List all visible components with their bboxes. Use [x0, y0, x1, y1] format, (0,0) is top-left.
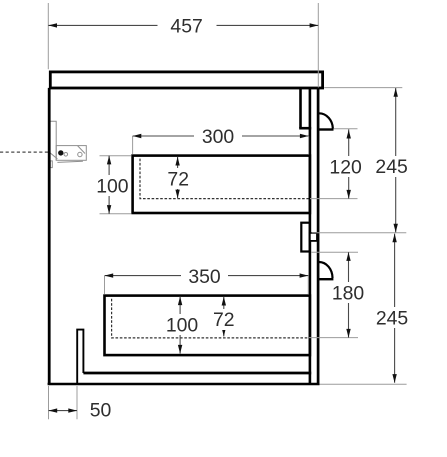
svg-text:100: 100: [96, 176, 129, 198]
72 bottom: [222, 297, 226, 306]
dim line 72 top: [177, 157, 179, 199]
right front panel inner line: [309, 88, 312, 384]
arrowheads: [48, 23, 398, 413]
countertop: [50, 72, 322, 88]
svg-text:350: 350: [188, 266, 221, 288]
svg-text:50: 50: [90, 400, 112, 422]
180 exts: [312, 251, 359, 253]
svg-text:245: 245: [375, 156, 407, 178]
457 exts: [47, 3, 49, 69]
50: [49, 408, 58, 412]
svg-text:245: 245: [376, 308, 408, 330]
bottom drawer dashed inner: [112, 299, 309, 338]
wall bracket detail: [50, 121, 87, 167]
floor line: [48, 383, 320, 386]
svg-text:72: 72: [167, 168, 189, 190]
dim line 72 bottom: [223, 297, 225, 337]
dim line 300: [133, 135, 309, 137]
middle glide bracket: [301, 223, 310, 252]
120 exts: [334, 128, 358, 130]
left side panel: [48, 88, 51, 384]
457: [48, 23, 57, 27]
100 top exts: [100, 155, 132, 157]
350 exts: [104, 276, 106, 294]
100 bottom: [178, 296, 182, 305]
dim line 457: [48, 24, 318, 26]
svg-text:100: 100: [166, 314, 199, 336]
dim line 245 top: [395, 88, 397, 232]
dim line 350: [105, 275, 309, 277]
dim line 50: [49, 410, 78, 412]
bracket pin dot: [58, 150, 63, 155]
wall dashed line: [0, 151, 49, 153]
floor extension right: [320, 383, 407, 385]
svg-text:300: 300: [202, 126, 235, 148]
top drawer dashed inner: [140, 159, 309, 199]
50 exts: [48, 386, 50, 419]
svg-text:120: 120: [329, 157, 362, 179]
bottom drawer box: [105, 296, 310, 356]
300: [133, 134, 142, 138]
plinth board: [77, 330, 83, 384]
handle profile top: [319, 113, 333, 129]
dim line 120: [348, 129, 350, 198]
cabinet structure: [48, 72, 334, 384]
dim line 100 top: [108, 156, 110, 214]
top drawer box: [133, 156, 310, 213]
245 top exts: [324, 87, 402, 89]
handle profile bottom: [319, 262, 333, 278]
extension lines: [48, 3, 406, 419]
bottom shelf panel: [83, 372, 311, 375]
180: [346, 252, 350, 261]
svg-text:72: 72: [213, 309, 235, 331]
svg-text:457: 457: [170, 15, 202, 37]
350: [105, 273, 114, 277]
dim line 100 bottom: [179, 296, 181, 353]
right front panel outer line: [317, 88, 320, 384]
dim line 245 bottom: [394, 234, 396, 383]
120: [347, 130, 351, 139]
label backgrounds: [94, 15, 411, 335]
245 top: [394, 88, 398, 97]
300 exts: [132, 136, 134, 154]
svg-text:180: 180: [332, 283, 365, 305]
245 bottom: [392, 234, 396, 243]
top glide channel: [299, 88, 302, 128]
72 top: [175, 157, 179, 166]
100 top: [107, 156, 111, 165]
dim line 180: [348, 252, 350, 337]
